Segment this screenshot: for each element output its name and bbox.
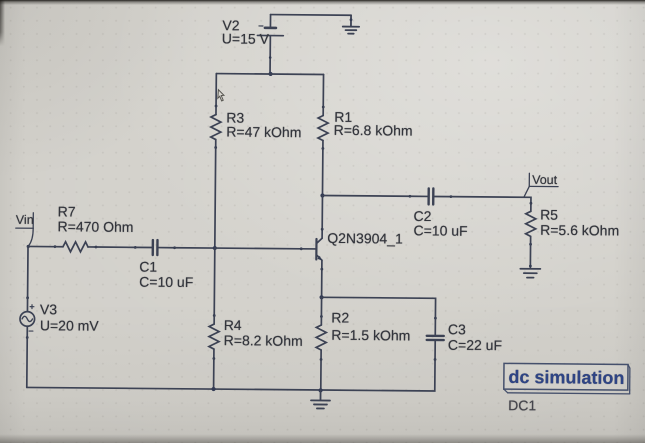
dc simulation block DC1 — [504, 363, 630, 393]
svg-text:U=15 V: U=15 V — [222, 30, 270, 46]
ground (top right) — [343, 15, 360, 34]
label V3 designator — [40, 301, 57, 317]
node R4 bottom junction — [211, 387, 215, 391]
wire C3 to bottom rail — [321, 358, 435, 390]
wire C1 to base junction — [175, 247, 215, 249]
label R2 designator — [331, 309, 349, 325]
svg-text:C=10 uF: C=10 uF — [414, 222, 468, 238]
svg-text:DC1: DC1 — [508, 397, 536, 413]
label C1 value — [139, 274, 193, 290]
label R2 value — [331, 327, 410, 344]
wire rail to R1 — [322, 75, 324, 107]
wire transistor emitter down — [321, 269, 323, 297]
wire collector node to C2 — [322, 195, 409, 198]
label C2 value — [414, 222, 468, 238]
svg-text:U=20 mV: U=20 mV — [40, 317, 100, 334]
wire V3 top (input column) — [27, 246, 29, 297]
resistor R5 — [526, 202, 536, 246]
svg-text:C=22 uF: C=22 uF — [448, 337, 502, 353]
resistor R1 — [318, 106, 328, 150]
label R1 value — [334, 122, 413, 139]
resistor R3 — [211, 105, 221, 149]
svg-text:Vin: Vin — [16, 213, 34, 227]
ground (output, below R5) — [520, 265, 540, 278]
label R3 value — [226, 124, 301, 141]
wire supply rail horizontal — [216, 73, 323, 76]
svg-text:R=5.6 kOhm: R=5.6 kOhm — [540, 222, 619, 239]
svg-text:R2: R2 — [331, 309, 349, 325]
wire input corner to R7 — [28, 245, 55, 247]
label DC1 designator — [508, 397, 536, 413]
wire emitter node to R2 — [320, 297, 322, 316]
svg-text:R=8.2 kOhm: R=8.2 kOhm — [224, 332, 303, 349]
svg-text:Vout: Vout — [532, 173, 558, 187]
wire emitter node to C3 branch — [321, 297, 435, 318]
wire R1 bottom to collector node — [321, 149, 323, 196]
svg-text:Q2N3904_1: Q2N3904_1 — [327, 230, 403, 247]
label C3 value — [448, 337, 502, 353]
label V2 designator — [222, 17, 239, 33]
node label Vin — [16, 213, 34, 247]
label V3 value — [40, 317, 100, 334]
wire base junction to transistor — [215, 247, 301, 250]
label R1 designator — [334, 109, 352, 125]
wire rail to R3 — [215, 74, 217, 106]
label Q1 designator — [327, 230, 403, 247]
ground (bottom center) — [311, 390, 330, 408]
node input corner — [27, 245, 30, 248]
svg-text:R=6.8 kOhm: R=6.8 kOhm — [334, 122, 413, 139]
capacitor C3 — [427, 317, 444, 361]
svg-text:C3: C3 — [448, 321, 466, 337]
mouse cursor — [218, 90, 224, 101]
capacitor C1 — [134, 240, 176, 255]
label V2 value — [222, 30, 270, 46]
label C1 designator — [139, 259, 157, 275]
wire base junction to R4 — [213, 248, 216, 315]
svg-text:R7: R7 — [58, 203, 76, 219]
node ground junction — [318, 388, 322, 392]
wire R7 to C1 — [96, 246, 135, 248]
label C3 designator — [448, 321, 466, 337]
node emitter junction — [319, 295, 323, 299]
svg-text:dc simulation: dc simulation — [508, 367, 624, 388]
resistor R4 — [209, 314, 219, 360]
svg-text:R=1.5 kOhm: R=1.5 kOhm — [331, 327, 410, 344]
svg-text:C=10 uF: C=10 uF — [139, 274, 193, 290]
svg-text:C1: C1 — [139, 259, 157, 275]
label R4 designator — [224, 317, 242, 333]
capacitor C2 — [409, 188, 453, 204]
transistor Q1 Q2N3904_1 — [300, 228, 324, 271]
node collector junction — [320, 193, 324, 197]
wire R3 bottom to base junction — [214, 148, 217, 248]
wire bottom rail — [27, 387, 321, 390]
label R5 designator — [540, 207, 558, 223]
label R7 value — [58, 218, 134, 235]
svg-text:V3: V3 — [40, 301, 57, 317]
label R3 designator — [226, 110, 244, 126]
label C2 designator — [414, 208, 432, 224]
wire R2 to bottom rail — [320, 359, 322, 390]
wire V3 to bottom rail — [26, 338, 28, 388]
node label Vout — [524, 173, 558, 198]
voltage source V2 (battery) — [257, 14, 284, 74]
svg-text:R4: R4 — [224, 317, 242, 333]
node 15V rail junction — [268, 72, 272, 76]
voltage source V3 (AC) — [20, 296, 35, 339]
wire V2 top to top-right ground — [271, 14, 351, 17]
resistor R7 — [54, 242, 98, 252]
svg-text:R=470 Ohm: R=470 Ohm — [58, 218, 134, 235]
label R7 designator — [58, 203, 76, 219]
label R5 value — [540, 222, 619, 239]
wire transistor collector up — [321, 196, 323, 229]
label R4 value — [224, 332, 303, 349]
wire R4 to bottom rail — [213, 359, 215, 389]
resistor R2 — [316, 315, 326, 361]
wire C2 to R5 branch — [451, 197, 531, 204]
svg-text:R5: R5 — [540, 207, 558, 223]
svg-text:R=47 kOhm: R=47 kOhm — [226, 124, 301, 141]
node base junction — [213, 246, 217, 250]
wire R5 to output ground — [529, 244, 531, 268]
